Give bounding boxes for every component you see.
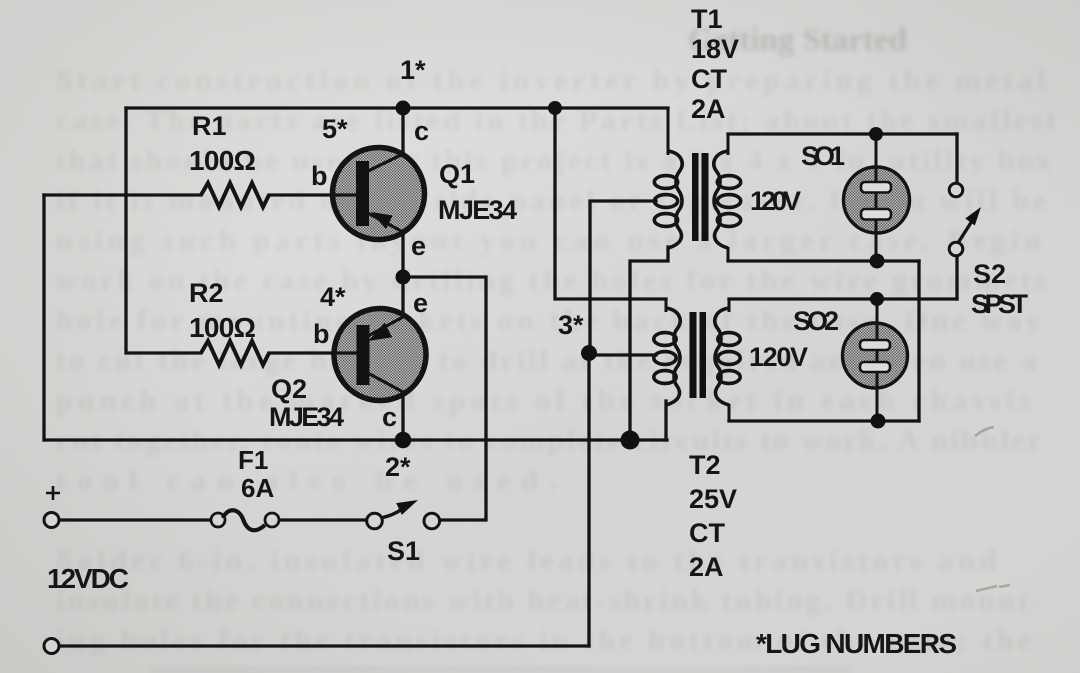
T1 primary loop 2 <box>654 195 677 208</box>
T1 primary loop 1 <box>654 176 677 189</box>
svg-text:T1: T1 <box>691 4 723 34</box>
T2 core bar left <box>690 312 697 398</box>
svg-text:e: e <box>413 288 428 318</box>
T2 secondary loop 1 <box>718 333 740 346</box>
svg-text:R2: R2 <box>189 278 224 308</box>
transformer T2 <box>654 299 740 421</box>
wire: T1 secondary top to S2 <box>728 132 957 135</box>
wire: fuse to S1 left contact <box>279 518 367 521</box>
svg-text:25V: 25V <box>689 484 737 514</box>
wire: T2 secondary bottom rail <box>729 419 919 422</box>
wire: emitter node to S1 right contact <box>403 277 486 520</box>
svg-text:MJE34: MJE34 <box>438 195 517 225</box>
svg-text:*LUG NUMBERS: *LUG NUMBERS <box>756 628 957 659</box>
T2 core bar right <box>700 312 707 398</box>
T1 secondary loop 2 <box>717 195 740 208</box>
T1 secondary loop 3 <box>717 214 740 227</box>
switch S2 SPST <box>949 183 981 256</box>
T1 secondary top lead <box>727 134 730 155</box>
svg-text:2*: 2* <box>385 452 411 482</box>
scratch mark below SPST <box>976 585 1010 591</box>
T2 primary loop 2 <box>654 352 676 365</box>
svg-text:S1: S1 <box>387 536 420 566</box>
junction dot SO2 bottom <box>871 414 886 429</box>
svg-text:F1: F1 <box>238 445 268 475</box>
battery plus terminal <box>44 513 59 528</box>
node 2 junction dot <box>395 432 412 449</box>
svg-text:120V: 120V <box>750 186 801 216</box>
T2 secondary top lead <box>728 299 731 312</box>
transistor Q2 MJE34 <box>333 309 426 401</box>
wire: top rail from left corner to T1 primary <box>126 106 668 109</box>
node 3 junction dot <box>581 345 597 361</box>
svg-text:T2: T2 <box>689 450 721 480</box>
socket SO1 <box>844 134 910 261</box>
svg-text:3*: 3* <box>558 310 584 340</box>
svg-text:S2: S2 <box>973 259 1006 289</box>
bottom edge show-through band <box>150 667 850 673</box>
wire: cross-couple vertical feeding R1 from bottom rail <box>42 195 45 440</box>
junction dot T1 bottom / bottom rail <box>621 431 640 450</box>
svg-text:CT: CT <box>691 64 727 94</box>
T2 secondary serpentine <box>715 308 729 405</box>
svg-text:1*: 1* <box>400 55 426 85</box>
transformer T1 <box>654 108 740 261</box>
wire: branch from top rail down to T2 primary top <box>555 108 666 299</box>
svg-text:MJE34: MJE34 <box>269 402 344 432</box>
svg-text:Q1: Q1 <box>439 159 475 189</box>
svg-text:R1: R1 <box>192 111 227 141</box>
svg-text:120V: 120V <box>749 342 808 372</box>
svg-text:e: e <box>411 231 426 261</box>
T1 secondary loop 1 <box>717 176 740 189</box>
svg-text:SPST: SPST <box>971 289 1029 319</box>
wire: R1 feed horizontal <box>44 193 201 196</box>
T1 primary top lead <box>667 108 670 155</box>
svg-text:SO1: SO1 <box>801 141 845 171</box>
T1 primary serpentine <box>668 151 682 248</box>
svg-text:SO2: SO2 <box>793 306 839 336</box>
wire: left vertical from top rail down to R2 feed <box>126 108 201 353</box>
wire: Q2 collector drop <box>401 392 404 440</box>
svg-text:b: b <box>313 319 330 349</box>
svg-text:CT: CT <box>689 518 725 548</box>
svg-text:18V: 18V <box>691 34 739 64</box>
wire: right riser joining SO1 bottom to SO2 bottom <box>917 261 920 421</box>
wire: T2 primary bottom to bottom rail <box>664 401 667 440</box>
svg-text:12VDC: 12VDC <box>47 563 129 594</box>
svg-text:punch at the marked spots of t: punch at the marked spots of the socket … <box>56 384 1031 417</box>
node 1 junction dot <box>396 101 411 116</box>
wire: battery plus to fuse <box>59 518 211 521</box>
resistor R2 100ohm zigzag <box>201 341 269 365</box>
T2 secondary loop 3 <box>718 371 740 384</box>
scratch mark right margin <box>975 427 994 436</box>
switch S1 <box>367 500 440 529</box>
wire: emitter bus vertical <box>401 232 404 317</box>
svg-text:Q2: Q2 <box>271 374 307 404</box>
svg-text:4*: 4* <box>320 282 346 312</box>
T1 primary loop 3 <box>654 214 677 227</box>
wire: S2 top contact lead <box>955 134 958 183</box>
emitter junction dot <box>396 270 411 285</box>
resistor R1 100ohm zigzag <box>201 183 269 207</box>
svg-text:5*: 5* <box>322 114 348 144</box>
wire: negative battery rail <box>59 644 589 647</box>
T1 core bar right <box>702 153 709 241</box>
wire: T2 center tap to node 3 <box>589 353 656 356</box>
socket SO2 <box>843 299 908 421</box>
junction dot at branch x555 <box>548 101 562 115</box>
wire: bottom rail (Q2 collector net) <box>44 438 667 441</box>
junction dot SO1 bottom <box>870 254 885 269</box>
svg-text:c: c <box>414 116 429 146</box>
wire: T1 primary bottom to bottom rail <box>630 247 668 440</box>
wire: S2 bottom contact lead <box>955 255 958 299</box>
junction dot SO2 top <box>870 292 884 306</box>
plus sign <box>46 486 60 500</box>
T1 core bar left <box>692 153 699 241</box>
svg-text:6A: 6A <box>241 473 274 503</box>
svg-text:c: c <box>382 402 397 432</box>
wire: T1 secondary bottom rail <box>728 259 919 262</box>
T2 primary loop 1 <box>654 333 676 346</box>
T2 secondary loop 2 <box>718 352 740 365</box>
wire: T1 center tap to node 3 <box>590 201 656 353</box>
wire: T2 secondary top rail to S2 bottom <box>729 297 957 300</box>
wire: node 3 down to negative rail <box>587 353 590 646</box>
battery minus terminal <box>44 639 59 654</box>
T2 primary loop 3 <box>654 371 676 384</box>
wire: R2 to Q2 base <box>269 351 356 354</box>
svg-text:100Ω: 100Ω <box>189 312 256 343</box>
svg-text:2A: 2A <box>691 94 726 124</box>
wire: Q1 collector riser <box>401 108 404 154</box>
wire: R1 to Q1 base <box>269 193 356 196</box>
T2 primary serpentine <box>666 308 680 405</box>
T2 secondary bottom lead <box>728 404 731 421</box>
junction dot SO1 top <box>869 127 883 141</box>
T1 secondary bottom lead <box>727 247 730 261</box>
T1 secondary serpentine <box>714 151 728 248</box>
transistor Q1 MJE34 <box>332 148 425 240</box>
svg-text:b: b <box>311 161 328 191</box>
svg-text:100Ω: 100Ω <box>189 145 256 176</box>
fuse F1 6A <box>211 510 279 530</box>
T2 primary top lead <box>665 299 668 312</box>
svg-text:2A: 2A <box>689 552 724 582</box>
